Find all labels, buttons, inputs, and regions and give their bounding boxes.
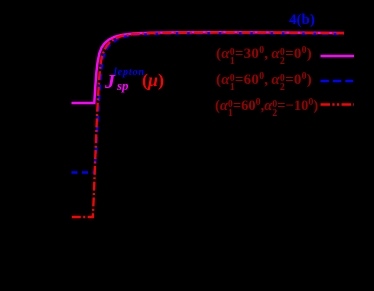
axis-label (mu)	[142, 70, 164, 91]
legend sample line 1: magenta solid	[321, 55, 355, 58]
axis-label J	[105, 71, 115, 94]
axis-label superscript lepton	[114, 67, 145, 78]
magenta solid curve (alpha1=30,alpha2=0)	[72, 32, 345, 103]
legend sample line 2: blue dashed	[321, 80, 354, 83]
legend text row 1	[216, 46, 312, 66]
legend sample line 3: red dash-dot-dot	[321, 103, 355, 106]
legend text row 3	[215, 98, 318, 118]
blue dashed curve (alpha1=60,alpha2=0)	[72, 33, 345, 172]
panel label 4(b)	[289, 12, 315, 29]
axis-label subscript sp	[117, 78, 129, 94]
legend text row 2	[216, 72, 312, 92]
red dash-dot-dot curve (alpha1=60,alpha2=-10)	[72, 33, 344, 217]
